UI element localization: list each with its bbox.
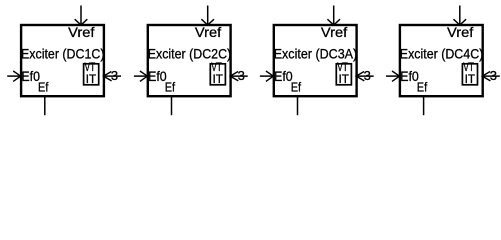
arrowhead: Vref input arrow into U1 — [75, 19, 88, 25]
arrowhead: Vref input arrow into U2 — [201, 19, 214, 25]
wire: pin-3 net at right of U1 — [104, 75, 121, 77]
measurement transducer sub-box VT/IT of U2 — [210, 64, 225, 85]
svg-text:VT: VT — [85, 62, 96, 74]
svg-text:IT: IT — [213, 74, 223, 86]
exciter block U1 (DC1C) body — [21, 25, 104, 96]
wire: Ef output net from bottom of U1 — [44, 96, 46, 115]
wire: Ef0 input net into left of U4 — [386, 75, 400, 77]
svg-text:Vref: Vref — [68, 24, 94, 40]
wire: Ef0 input net into left of U2 — [134, 75, 148, 77]
wire: Vref input net into top of U1 — [80, 6, 82, 26]
arrowhead: Ef0 input arrow into U1 — [13, 71, 21, 81]
svg-text:IT: IT — [86, 74, 96, 86]
svg-text:Ef: Ef — [165, 79, 176, 94]
svg-text:Exciter (DC4C): Exciter (DC4C) — [400, 46, 484, 62]
arrowhead: Ef0 input arrow into U3 — [266, 71, 274, 81]
svg-text:Vref: Vref — [321, 24, 347, 40]
exciter block U4 (DC4C) body — [400, 25, 483, 96]
wire: Ef0 input net into left of U1 — [7, 75, 21, 77]
svg-text:3: 3 — [490, 68, 497, 83]
measurement transducer sub-box VT/IT of U4 — [462, 64, 477, 85]
svg-text:IT: IT — [339, 74, 349, 86]
arrowhead: arrow into right side of U2 — [230, 72, 238, 81]
arrowhead: Vref input arrow into U3 — [327, 19, 340, 25]
wire: Ef output net from bottom of U3 — [297, 96, 299, 115]
measurement transducer sub-box VT/IT of U1 — [84, 64, 99, 85]
exciter block U3 (DC3A) body — [274, 25, 357, 96]
arrowhead: arrow into right side of U4 — [482, 72, 490, 81]
wire: Ef output net from bottom of U2 — [171, 96, 173, 115]
wire: Ef output net from bottom of U4 — [423, 96, 425, 115]
svg-text:IT: IT — [465, 74, 475, 86]
wire: pin-3 net at right of U3 — [357, 75, 374, 77]
svg-text:VT: VT — [337, 62, 348, 74]
svg-text:VT: VT — [211, 62, 222, 74]
svg-text:Ef: Ef — [417, 79, 428, 94]
svg-text:Exciter (DC2C): Exciter (DC2C) — [148, 46, 232, 62]
arrowhead: Vref input arrow into U4 — [454, 19, 467, 25]
exciter block U2 (DC2C) body — [148, 25, 231, 96]
wire: pin-3 net at right of U2 — [231, 75, 248, 77]
wire: Vref input net into top of U2 — [207, 6, 209, 26]
arrowhead: Ef0 input arrow into U2 — [140, 71, 148, 81]
wire: Vref input net into top of U3 — [333, 6, 335, 26]
svg-text:Ef: Ef — [291, 79, 302, 94]
svg-text:3: 3 — [364, 68, 371, 83]
svg-text:Ef: Ef — [38, 79, 49, 94]
svg-text:VT: VT — [463, 62, 474, 74]
arrowhead: Ef0 input arrow into U4 — [392, 71, 400, 81]
svg-text:Vref: Vref — [195, 24, 221, 40]
measurement transducer sub-box VT/IT of U3 — [336, 64, 351, 85]
svg-text:Vref: Vref — [447, 24, 473, 40]
wire: Ef0 input net into left of U3 — [260, 75, 274, 77]
svg-text:Exciter (DC3A): Exciter (DC3A) — [274, 46, 358, 62]
svg-text:3: 3 — [111, 68, 118, 83]
arrowhead: arrow into right side of U1 — [103, 72, 111, 81]
svg-text:3: 3 — [238, 68, 245, 83]
wire: pin-3 net at right of U4 — [483, 75, 500, 77]
wire: Vref input net into top of U4 — [459, 6, 461, 26]
arrowhead: arrow into right side of U3 — [356, 72, 364, 81]
svg-text:Exciter (DC1C): Exciter (DC1C) — [21, 46, 105, 62]
